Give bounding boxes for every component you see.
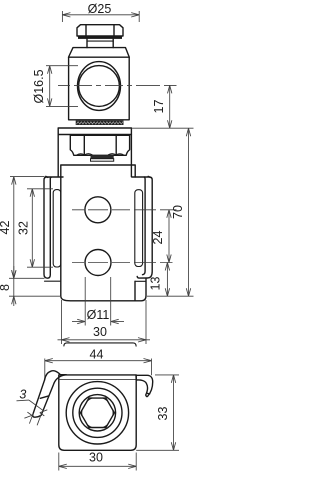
svg-text:33: 33 (156, 407, 170, 421)
right clip (side profile) (132, 176, 152, 278)
dimension 30 (bottom view) (59, 451, 136, 471)
upper hole centerline (72, 209, 177, 211)
bore centerline (58, 84, 177, 86)
dimension 32 (left inner) (17, 189, 54, 267)
dimension Ø11 (bottom hole) (72, 277, 124, 326)
dimension 70 (right outer) (171, 128, 191, 296)
right conductor seat (135, 190, 143, 267)
dimension 42 (left outer) (0, 177, 45, 279)
svg-text:13: 13 (149, 277, 163, 291)
svg-text:Ø25: Ø25 (88, 2, 112, 16)
hex nut (side view) (70, 135, 129, 155)
lower hole centerline (72, 262, 173, 264)
clamp frame bar (58, 128, 131, 177)
bolt head (hex, side view) (77, 25, 123, 39)
svg-text:42: 42 (0, 221, 12, 235)
clamp ring outer (bottom view) (66, 382, 128, 444)
svg-text:8: 8 (0, 284, 12, 291)
bore outer ellipse (78, 62, 121, 111)
svg-text:24: 24 (151, 231, 165, 245)
left hook (bottom view) (33, 371, 66, 418)
spring washer arc between views (64, 343, 136, 346)
bolt neck / shaft (87, 39, 113, 48)
left conductor seat (53, 190, 61, 267)
dimension 24 (right holes) (151, 210, 171, 263)
svg-text:Ø16.5: Ø16.5 (32, 69, 46, 103)
threaded stub below nut (91, 155, 114, 161)
hex chamfer corner arcs (82, 398, 113, 428)
base plate (bottom view) (59, 375, 136, 450)
upper hole (85, 197, 111, 223)
svg-text:Ø11: Ø11 (87, 308, 110, 322)
extension line plate top to right (132, 127, 194, 129)
left clip (side profile) (44, 176, 63, 278)
dimension Ø25 (62, 2, 139, 22)
bore inner circle (79, 66, 120, 107)
dimension 8 (left bottom) (0, 266, 61, 306)
extension line bottom to right (147, 295, 194, 297)
plate fold line (59, 379, 136, 381)
clamp block with chamfered top (69, 48, 130, 120)
svg-text:32: 32 (17, 221, 31, 235)
dimension 3 with leaders (17, 387, 48, 425)
svg-text:44: 44 (90, 347, 104, 361)
dimension 44 (45, 347, 152, 380)
clamp ring inner (bottom view) (79, 395, 115, 431)
serrated washer (76, 121, 124, 125)
lower hole (85, 250, 111, 276)
saddle body outline (45, 165, 147, 301)
svg-text:30: 30 (89, 451, 103, 465)
dimension 33 (bottom view right) (136, 375, 179, 450)
right hook (bottom view) (136, 375, 153, 396)
dimension 13 (right bottom) (149, 263, 170, 297)
svg-text:3: 3 (19, 387, 26, 401)
dimension 17 (right top) (152, 85, 172, 128)
clamp ring middle (bottom view) (73, 388, 122, 437)
dimension Ø16.5 (32, 66, 78, 107)
hex bolt head (bottom view) (80, 398, 114, 427)
dimension 30 (side view bottom) (58, 300, 151, 344)
svg-text:17: 17 (152, 100, 166, 114)
svg-text:70: 70 (171, 205, 185, 219)
svg-text:30: 30 (93, 325, 107, 339)
